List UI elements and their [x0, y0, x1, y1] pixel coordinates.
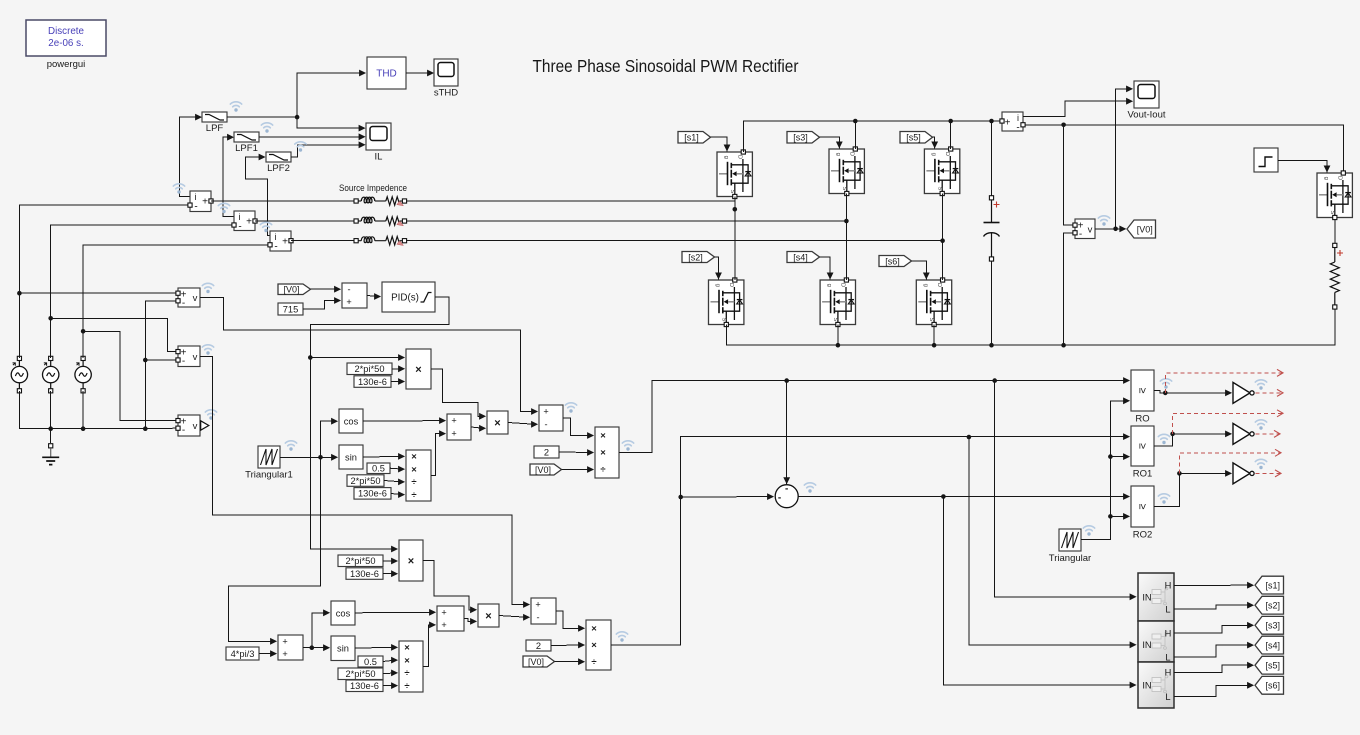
trig block sin1 [339, 445, 363, 469]
junction leg 3 [940, 238, 945, 243]
svg-text:L: L [1165, 692, 1170, 702]
From tag [s3] [787, 132, 820, 144]
wire Q6 source to DC- bus [933, 325, 935, 346]
wire RL branch A to bridge leg 1 [407, 200, 735, 202]
From tag [s5] [900, 132, 933, 144]
badge NOT2 output [1255, 420, 1266, 430]
wire Q5 drain to DC+ bus [950, 121, 952, 149]
wire RL branch C to bridge leg 3 [407, 240, 943, 242]
svg-text:Source Impedence: Source Impedence [339, 183, 407, 193]
THD block [367, 57, 406, 89]
wire driver2 H to goto s3 [1174, 622, 1254, 633]
Goto tag [s3] [1255, 616, 1284, 634]
wire const to D1 in3 [384, 479, 405, 486]
powergui block [26, 20, 106, 70]
wire mod B into neg sum [681, 493, 774, 500]
svg-text:D: D [728, 283, 734, 287]
wire sin2 to divider D2 in1 [355, 644, 398, 651]
svg-text:Triangular: Triangular [1049, 553, 1091, 564]
constant 2 a [534, 446, 559, 458]
svg-text:130e-6: 130e-6 [350, 681, 379, 691]
wire V0 to DA in3 [562, 466, 595, 473]
junction mod B to driver 2 [967, 435, 972, 440]
divide block D1 [406, 450, 431, 501]
wire PID to product2 input 1 [310, 358, 398, 553]
MOSFET Q1 [717, 150, 752, 199]
svg-text:[s2]: [s2] [1265, 601, 1280, 611]
wire const to P1 in2 [392, 365, 405, 372]
junction LPF output node [295, 115, 300, 120]
svg-text:i: i [275, 232, 277, 242]
wire i-meas1 i-output to LPF [180, 114, 203, 197]
junction DC- at Q6 [932, 343, 937, 348]
wire RO1 output to NOT2 [1154, 431, 1232, 447]
svg-text:g: g [930, 153, 936, 156]
svg-text:×: × [408, 555, 414, 567]
MOSFET Q7 (load switch) [1317, 171, 1352, 220]
round sum block (negate add) [775, 484, 798, 508]
svg-text:+: + [202, 197, 208, 208]
svg-text:0.5: 0.5 [364, 657, 377, 667]
sum block C (v1 - term) [539, 405, 563, 431]
wire X2 to sumE minus [499, 614, 530, 621]
MOSFET Q4 [820, 278, 855, 327]
wire v-meas minus chain [145, 301, 175, 429]
hidden link RO high side [1165, 369, 1283, 393]
wire mod A to driver1 IN [995, 381, 1137, 601]
constant 0.5 a [367, 463, 390, 474]
svg-text:cos: cos [344, 416, 359, 426]
svg-text:sin: sin [337, 644, 349, 654]
svg-text:×: × [591, 624, 597, 635]
svg-text:×: × [415, 364, 421, 376]
wire 2 to DA in2 [559, 449, 594, 456]
svg-text:sTHD: sTHD [434, 88, 458, 99]
svg-text:×: × [600, 448, 606, 459]
wire i2 to RL branch B [255, 220, 354, 222]
junction DC+ at Q5 [948, 119, 953, 124]
wire const to D1 in4 [391, 491, 405, 498]
product block P2 (3 inputs) [399, 540, 423, 581]
wire v-meas plus feed [1064, 125, 1073, 225]
wire s3 to M3 gate [820, 137, 843, 148]
sum block F (wt + 4*pi/3) [278, 635, 303, 660]
svg-text:i: i [1017, 113, 1019, 123]
wire DC+ to load [1025, 125, 1343, 172]
wire P1 output staircase [431, 369, 486, 420]
badge i3 [260, 222, 271, 232]
NOT gate 2 [1233, 423, 1254, 444]
wire to sin1 [321, 454, 339, 461]
hidden link RO2 high side [1179, 449, 1281, 473]
wire carrier to RO2 in2 [1110, 513, 1130, 520]
AC voltage source Va [11, 356, 27, 393]
divide block DB (modulation b) [586, 620, 611, 670]
wire Triangular1 output [280, 456, 321, 458]
svg-text:≥: ≥ [1137, 443, 1149, 449]
svg-text:-: - [785, 484, 788, 495]
constant 2*pi*50 a [347, 363, 392, 375]
badge LPF1 output [261, 123, 272, 133]
junction RO output [1163, 391, 1168, 396]
svg-text:+: + [282, 237, 288, 248]
badge LPF2 output [295, 142, 306, 152]
MOSFET Q2 [709, 278, 744, 327]
MOSFET Q6 [916, 278, 951, 327]
svg-text:[s5]: [s5] [906, 133, 921, 143]
wire carrier to relational operators [1081, 397, 1130, 539]
wire cos2 to sumD in1 [355, 609, 436, 616]
low-pass filter LPF [202, 112, 227, 134]
svg-text:-: - [536, 613, 539, 623]
svg-text:i: i [239, 212, 241, 222]
wire i3 to RL branch C [291, 240, 354, 242]
constant 2*pi*50 c [338, 555, 383, 567]
wire s1 to M1 gate [711, 137, 731, 151]
wire s5 to M5 gate [931, 137, 938, 148]
junction leg 1 [733, 207, 738, 212]
voltage measurement V0 (DC) [1075, 219, 1095, 240]
current measurement Iout [1002, 112, 1023, 134]
wire sin1 to divider D1 in1 [363, 453, 405, 460]
title text [533, 56, 799, 76]
wire carrier to RO1 in2 [1110, 453, 1130, 460]
gate driver subsystem 3 [1138, 662, 1174, 708]
wire minus chain to v2 minus [145, 359, 175, 361]
badge Triangular1 [285, 441, 296, 451]
svg-text:D: D [848, 152, 854, 156]
voltage measurement v3 [178, 415, 200, 436]
junction carrier to RO2 [1108, 514, 1113, 519]
From tag [V0] b [530, 464, 562, 475]
wire cos1 to sumB in1 [363, 417, 446, 424]
svg-text:H: H [1165, 668, 1172, 678]
badge sumC output [565, 403, 576, 413]
svg-text:Triangular1: Triangular1 [245, 470, 293, 481]
wire to sin2 [312, 644, 330, 651]
wire phase A to v1 plus [19, 292, 175, 294]
svg-text:+: + [282, 649, 287, 659]
wire error to PID [367, 293, 381, 300]
wire source Vc to neutral [82, 391, 84, 429]
svg-text:[s1]: [s1] [1265, 581, 1280, 591]
wire V0 to DB in3 [555, 658, 586, 665]
svg-text:-: - [274, 242, 277, 253]
junction PID signal split [308, 355, 313, 360]
wire phase C to v3 plus [83, 331, 176, 420]
constant 2*pi*50 b [347, 475, 384, 487]
wire driver1 L to goto s2 [1174, 602, 1254, 609]
product block X1 [487, 411, 508, 434]
wire X1 to sumC minus [508, 421, 538, 428]
svg-text:2*pi*50: 2*pi*50 [346, 669, 376, 679]
wire Triangular1 to lower sum [229, 457, 321, 644]
svg-text:0.5: 0.5 [372, 464, 385, 474]
svg-text:[s3]: [s3] [793, 133, 808, 143]
junction neutral to v-meas minus chain [143, 426, 148, 431]
svg-text:v: v [193, 421, 198, 432]
source block Triangular (carrier) [1049, 529, 1091, 564]
wire const to P2 in3 [383, 570, 398, 577]
wire 0.5 to D1 in2 [390, 466, 405, 473]
hidden link RO1 high side [1173, 410, 1283, 434]
Goto tag [V0] [1127, 220, 1156, 238]
junction phase C tap [81, 329, 86, 334]
badge V0 measurement [1098, 216, 1109, 226]
sum block E (v2 - term) [531, 598, 556, 624]
wire PID to product1 input 1 [310, 354, 405, 361]
wire i-meas2 i-output to LPF1 [223, 134, 234, 217]
wire phase B to i2 input [51, 225, 232, 358]
badge i2 [218, 203, 229, 213]
badge RO2 output [1158, 494, 1169, 504]
svg-text:[V0]: [V0] [528, 657, 544, 667]
constant 715 [278, 303, 303, 315]
svg-text:130e-6: 130e-6 [350, 569, 379, 579]
constant 0.5 b [358, 656, 383, 667]
wire RL branch B to bridge leg 2 [407, 220, 847, 222]
wire const to P2 in2 [383, 558, 398, 565]
junction phase B tap [48, 316, 53, 321]
Goto tag [s4] [1255, 636, 1284, 654]
wire LPF output [227, 116, 297, 118]
wire D1 output up to sumB in2 [431, 430, 446, 475]
svg-text:[s6]: [s6] [885, 256, 900, 266]
svg-text:2: 2 [544, 447, 549, 457]
source block Triangular1 [245, 446, 293, 481]
svg-text:S: S [832, 317, 838, 321]
svg-text:g: g [835, 153, 841, 156]
wire neutral bus [19, 391, 175, 429]
svg-text:+: + [535, 600, 540, 610]
constant 2*pi*50 d [338, 668, 383, 680]
wire D2 output up to sumD in2 [423, 622, 436, 667]
NOT gate 3 [1233, 463, 1254, 484]
svg-text:-: - [182, 356, 185, 367]
badge LPF output [230, 102, 241, 112]
junction carrier to RO1 [1108, 454, 1113, 459]
constant 130e-6 d [346, 680, 383, 692]
svg-text:S: S [720, 317, 726, 321]
svg-text:×: × [411, 452, 417, 463]
AC voltage source Vc [75, 356, 91, 393]
junction sumF split [310, 645, 315, 650]
svg-text:-: - [194, 202, 197, 213]
hidden link NOT1 output [1255, 389, 1283, 396]
svg-text:g: g [1323, 177, 1329, 180]
step source block [1254, 148, 1278, 172]
ground [42, 444, 59, 465]
svg-text:D: D [944, 152, 950, 156]
svg-text:≥: ≥ [1137, 504, 1149, 510]
svg-text:÷: ÷ [404, 668, 409, 679]
wire mod B to driver2 IN [969, 437, 1137, 648]
svg-text:g: g [715, 284, 721, 287]
trig block cos1 [339, 409, 363, 433]
svg-text:IL: IL [375, 152, 383, 163]
wire neutral to ground [50, 429, 52, 443]
wire Q3 drain to DC+ bus [854, 121, 856, 149]
wire 715 to sum plus [303, 297, 341, 309]
From tag [s1] [678, 132, 711, 144]
junction DC+ at capacitor [989, 119, 994, 124]
junction V0 signal [1113, 227, 1118, 232]
voltage measurement v2 [178, 346, 200, 367]
junction leg 2 [844, 219, 849, 224]
wire sumE output to divider DB [556, 611, 585, 632]
wire source Vb to neutral [50, 391, 52, 429]
svg-text:S: S [729, 189, 735, 193]
constant 2 b [526, 640, 551, 651]
svg-text:D: D [736, 155, 742, 159]
svg-text:+: + [1005, 118, 1011, 129]
svg-text:S: S [1329, 210, 1335, 214]
junction minus chain to v2 [143, 358, 148, 363]
svg-text:-: - [1016, 123, 1019, 134]
badge RO output [1160, 379, 1171, 389]
wire Iout signal to scope [1023, 98, 1133, 117]
junction DC+ rail to v-meas [1061, 123, 1066, 128]
junction neutral at Vb [48, 426, 53, 431]
svg-text:÷: ÷ [411, 490, 416, 501]
badge RO1 output [1158, 434, 1169, 444]
badge v3 [205, 410, 216, 420]
constant 130e-6 a [354, 376, 391, 388]
wire modulation signal C to RO2 [798, 493, 1130, 500]
constant 130e-6 b [354, 488, 391, 500]
svg-text:130e-6: 130e-6 [358, 377, 387, 387]
svg-text:-: - [778, 493, 781, 504]
svg-text:-: - [238, 222, 241, 233]
junction RO1 output [1170, 432, 1175, 437]
svg-text:RO1: RO1 [1133, 469, 1153, 480]
MOSFET Q3 [829, 147, 864, 196]
svg-text:D: D [840, 283, 846, 287]
From tag [V0] to error sum [278, 284, 311, 295]
Goto tag [s2] [1255, 596, 1284, 614]
Goto tag [s6] [1255, 676, 1284, 694]
NOT gate 1 [1233, 382, 1254, 403]
junction DC+ at Q3 [853, 119, 858, 124]
wire driver1 H to goto s1 [1174, 582, 1254, 589]
junction mod C to driver 3 [941, 494, 946, 499]
wire phase A to i1 input [19, 205, 187, 358]
badge NOT1 output [1255, 380, 1266, 390]
badge Triangular [1083, 526, 1094, 536]
wire sumB to product X1 in2 [471, 425, 486, 432]
svg-text:[V0]: [V0] [283, 285, 299, 295]
junction mod A to driver 1 [992, 378, 997, 383]
wire RO output to NOT1 [1154, 390, 1232, 397]
svg-text:D: D [1336, 176, 1342, 180]
badge v1 [202, 283, 213, 293]
svg-text:2e-06 s.: 2e-06 s. [48, 38, 83, 49]
svg-text:THD: THD [376, 69, 397, 80]
svg-text:130e-6: 130e-6 [358, 489, 387, 499]
RL branch phase A (Source Impedence) [354, 197, 407, 206]
svg-text:Discrete: Discrete [48, 26, 84, 37]
svg-text:+: + [451, 429, 456, 439]
svg-text:×: × [591, 640, 597, 651]
svg-text:IN: IN [1142, 640, 1151, 650]
low-pass filter LPF2 [266, 152, 291, 174]
wire 4*pi/3 to sumF [259, 650, 277, 657]
svg-text:g: g [826, 284, 832, 287]
scope sTHD [434, 59, 458, 99]
wire v2 output route [200, 357, 530, 608]
svg-text:H: H [1165, 628, 1172, 638]
svg-text:S: S [841, 186, 847, 190]
svg-text:×: × [411, 464, 417, 475]
svg-text:×: × [600, 431, 606, 442]
svg-text:×: × [485, 610, 491, 622]
From tag [V0] c [523, 656, 555, 667]
svg-text:+: + [282, 636, 287, 646]
badge NOT3 output [1255, 459, 1266, 469]
svg-text:-: - [182, 425, 185, 436]
svg-text:S: S [936, 186, 942, 190]
hidden link NOT2 output [1255, 430, 1280, 437]
badge DB output [616, 632, 627, 642]
Goto tag [s1] [1255, 576, 1284, 594]
svg-text:×: × [404, 655, 410, 666]
ports current measurements [188, 199, 293, 247]
svg-text:cos: cos [336, 608, 351, 618]
From tag [s6] [879, 256, 912, 267]
wire leg 2 (Q3 source to Q4 drain) [845, 194, 847, 281]
junction Triangular1 split [318, 455, 323, 460]
svg-text:2*pi*50: 2*pi*50 [355, 364, 385, 374]
wire RO2 output to NOT3 [1154, 470, 1232, 507]
junction DC- at capacitor [989, 343, 994, 348]
sum block D [437, 606, 464, 631]
AC voltage source Vb [43, 356, 59, 393]
wire 0.5 to D2 in2 [383, 657, 398, 664]
relational operator RO1 [1131, 426, 1154, 480]
svg-text:LPF1: LPF1 [235, 143, 258, 154]
svg-text:[s4]: [s4] [793, 252, 808, 262]
wire node to IL scope input 1 [297, 117, 366, 131]
svg-text:≥: ≥ [1137, 388, 1149, 394]
svg-text:+: + [346, 297, 351, 307]
svg-text:Three Phase Sinosoidal PWM Rec: Three Phase Sinosoidal PWM Rectifier [533, 56, 799, 76]
svg-text:LPF2: LPF2 [267, 163, 290, 174]
wire i1 to RL branch A [211, 200, 354, 202]
scope IL [366, 123, 391, 163]
wire sumC output to divider DA [563, 418, 594, 439]
svg-text:2*pi*50: 2*pi*50 [351, 476, 381, 486]
wire Q7 source to load resistor [1334, 220, 1336, 243]
wire Q4 source to DC- bus [837, 325, 839, 346]
wire mod A down to neg sum [783, 381, 790, 485]
junction DC- at Q4 [836, 343, 841, 348]
PID controller block [382, 282, 435, 312]
wire V0 to scope input 1 [1116, 86, 1134, 229]
junction mod A to neg sum [784, 378, 789, 383]
wire P2 output staircase [423, 561, 477, 614]
svg-text:[s1]: [s1] [684, 133, 699, 143]
svg-text:-: - [347, 284, 350, 294]
wire V0 to goto tag and scope [1095, 226, 1126, 233]
wire 2 to DB in2 [551, 642, 585, 649]
svg-text:[s5]: [s5] [1265, 661, 1280, 671]
current measurement i3 [270, 231, 291, 253]
junction mod B to neg sum [678, 495, 683, 500]
wire const to D2 in3 [383, 670, 398, 677]
wire DC- bus [726, 310, 1335, 346]
svg-text:2*pi*50: 2*pi*50 [346, 556, 376, 566]
RL branch phase C [354, 237, 407, 246]
